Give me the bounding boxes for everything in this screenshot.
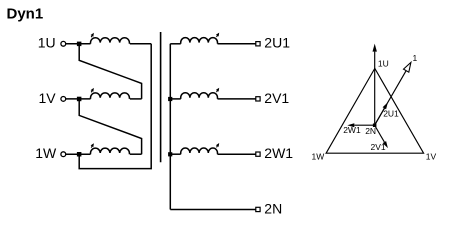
- svg-text:1U: 1U: [378, 58, 389, 68]
- junction dot 1W: [77, 152, 82, 157]
- wire 1W coil end to delta node: [130, 153, 142, 155]
- svg-text:1U: 1U: [38, 35, 56, 51]
- junction dot 1U: [77, 42, 82, 47]
- svg-text:2W1: 2W1: [343, 125, 361, 135]
- junction dot bus 2V1: [168, 97, 172, 101]
- polarity arrow winding 1U: [91, 33, 94, 37]
- terminal 2U1 square: [256, 42, 260, 46]
- svg-text:2V1: 2V1: [371, 142, 386, 152]
- svg-text:2N: 2N: [365, 126, 376, 136]
- terminal 2W1 square: [256, 152, 260, 156]
- phasor clock ray 1: [375, 62, 411, 125]
- junction dot bus 2W1: [168, 152, 172, 156]
- phasor arrow 2U1: [375, 102, 388, 125]
- terminal 1U: [61, 41, 66, 46]
- wire delta link 1U start to 1V end: [79, 44, 141, 99]
- svg-text:1W: 1W: [312, 152, 325, 162]
- svg-text:1W: 1W: [35, 145, 57, 161]
- wire 2N bus to terminal: [170, 209, 255, 211]
- svg-text:1: 1: [413, 53, 418, 63]
- phasor arrow 2V1: [375, 125, 388, 148]
- wire 1U coil end to right: [130, 43, 151, 45]
- svg-text:Dyn1: Dyn1: [7, 5, 44, 22]
- svg-text:1V: 1V: [38, 90, 56, 106]
- terminal 1V: [61, 97, 66, 102]
- terminal 1W: [61, 152, 66, 157]
- wire 2V1 coil to terminal: [218, 98, 256, 100]
- polarity arrow winding 2W1: [216, 143, 219, 147]
- polarity arrow winding 2V1: [216, 88, 219, 92]
- wire delta link 1W start to 1U end: [79, 44, 151, 169]
- junction dot 1V: [77, 97, 82, 102]
- wire 2V1 bus to coil: [170, 98, 180, 100]
- wire 1V terminal to coil: [66, 98, 91, 100]
- svg-text:2U1: 2U1: [264, 35, 290, 51]
- wire 1W terminal to coil: [66, 153, 91, 155]
- wire 2W1 coil to terminal: [218, 153, 256, 155]
- phasor arrow 2W1: [347, 123, 374, 127]
- winding 2W1 coil: [181, 148, 218, 154]
- terminal 2N square: [256, 207, 260, 211]
- winding 1U coil: [91, 38, 130, 44]
- winding 2V1 coil: [181, 93, 218, 99]
- svg-text:2V1: 2V1: [264, 90, 289, 106]
- polarity arrow winding 2U1: [216, 33, 219, 37]
- winding 2U1 coil: [181, 38, 218, 44]
- polarity arrow winding 1V: [91, 88, 94, 92]
- terminal 2V1 square: [256, 97, 260, 101]
- wire 2W1 bus to coil: [170, 153, 180, 155]
- core line: [160, 32, 162, 162]
- phasor triangle: [326, 68, 424, 153]
- winding 1W coil: [91, 148, 130, 154]
- wire secondary star bus: [169, 44, 171, 210]
- polarity arrow winding 1W: [91, 143, 94, 147]
- svg-text:2N: 2N: [264, 200, 282, 216]
- svg-text:1V: 1V: [426, 152, 437, 162]
- svg-text:2U1: 2U1: [383, 109, 399, 119]
- svg-text:2W1: 2W1: [264, 145, 293, 161]
- phasor 1U axis arrow: [373, 44, 377, 126]
- wire 1U terminal to coil: [66, 43, 91, 45]
- winding 1V coil: [91, 93, 130, 99]
- wire delta link 1V start to 1W end: [79, 99, 141, 154]
- node 2N dot: [373, 124, 377, 128]
- wire 2U1 coil to terminal: [218, 43, 256, 45]
- wire 1V coil end to delta node: [130, 98, 142, 100]
- wire 2U1 bus to coil: [170, 43, 180, 45]
